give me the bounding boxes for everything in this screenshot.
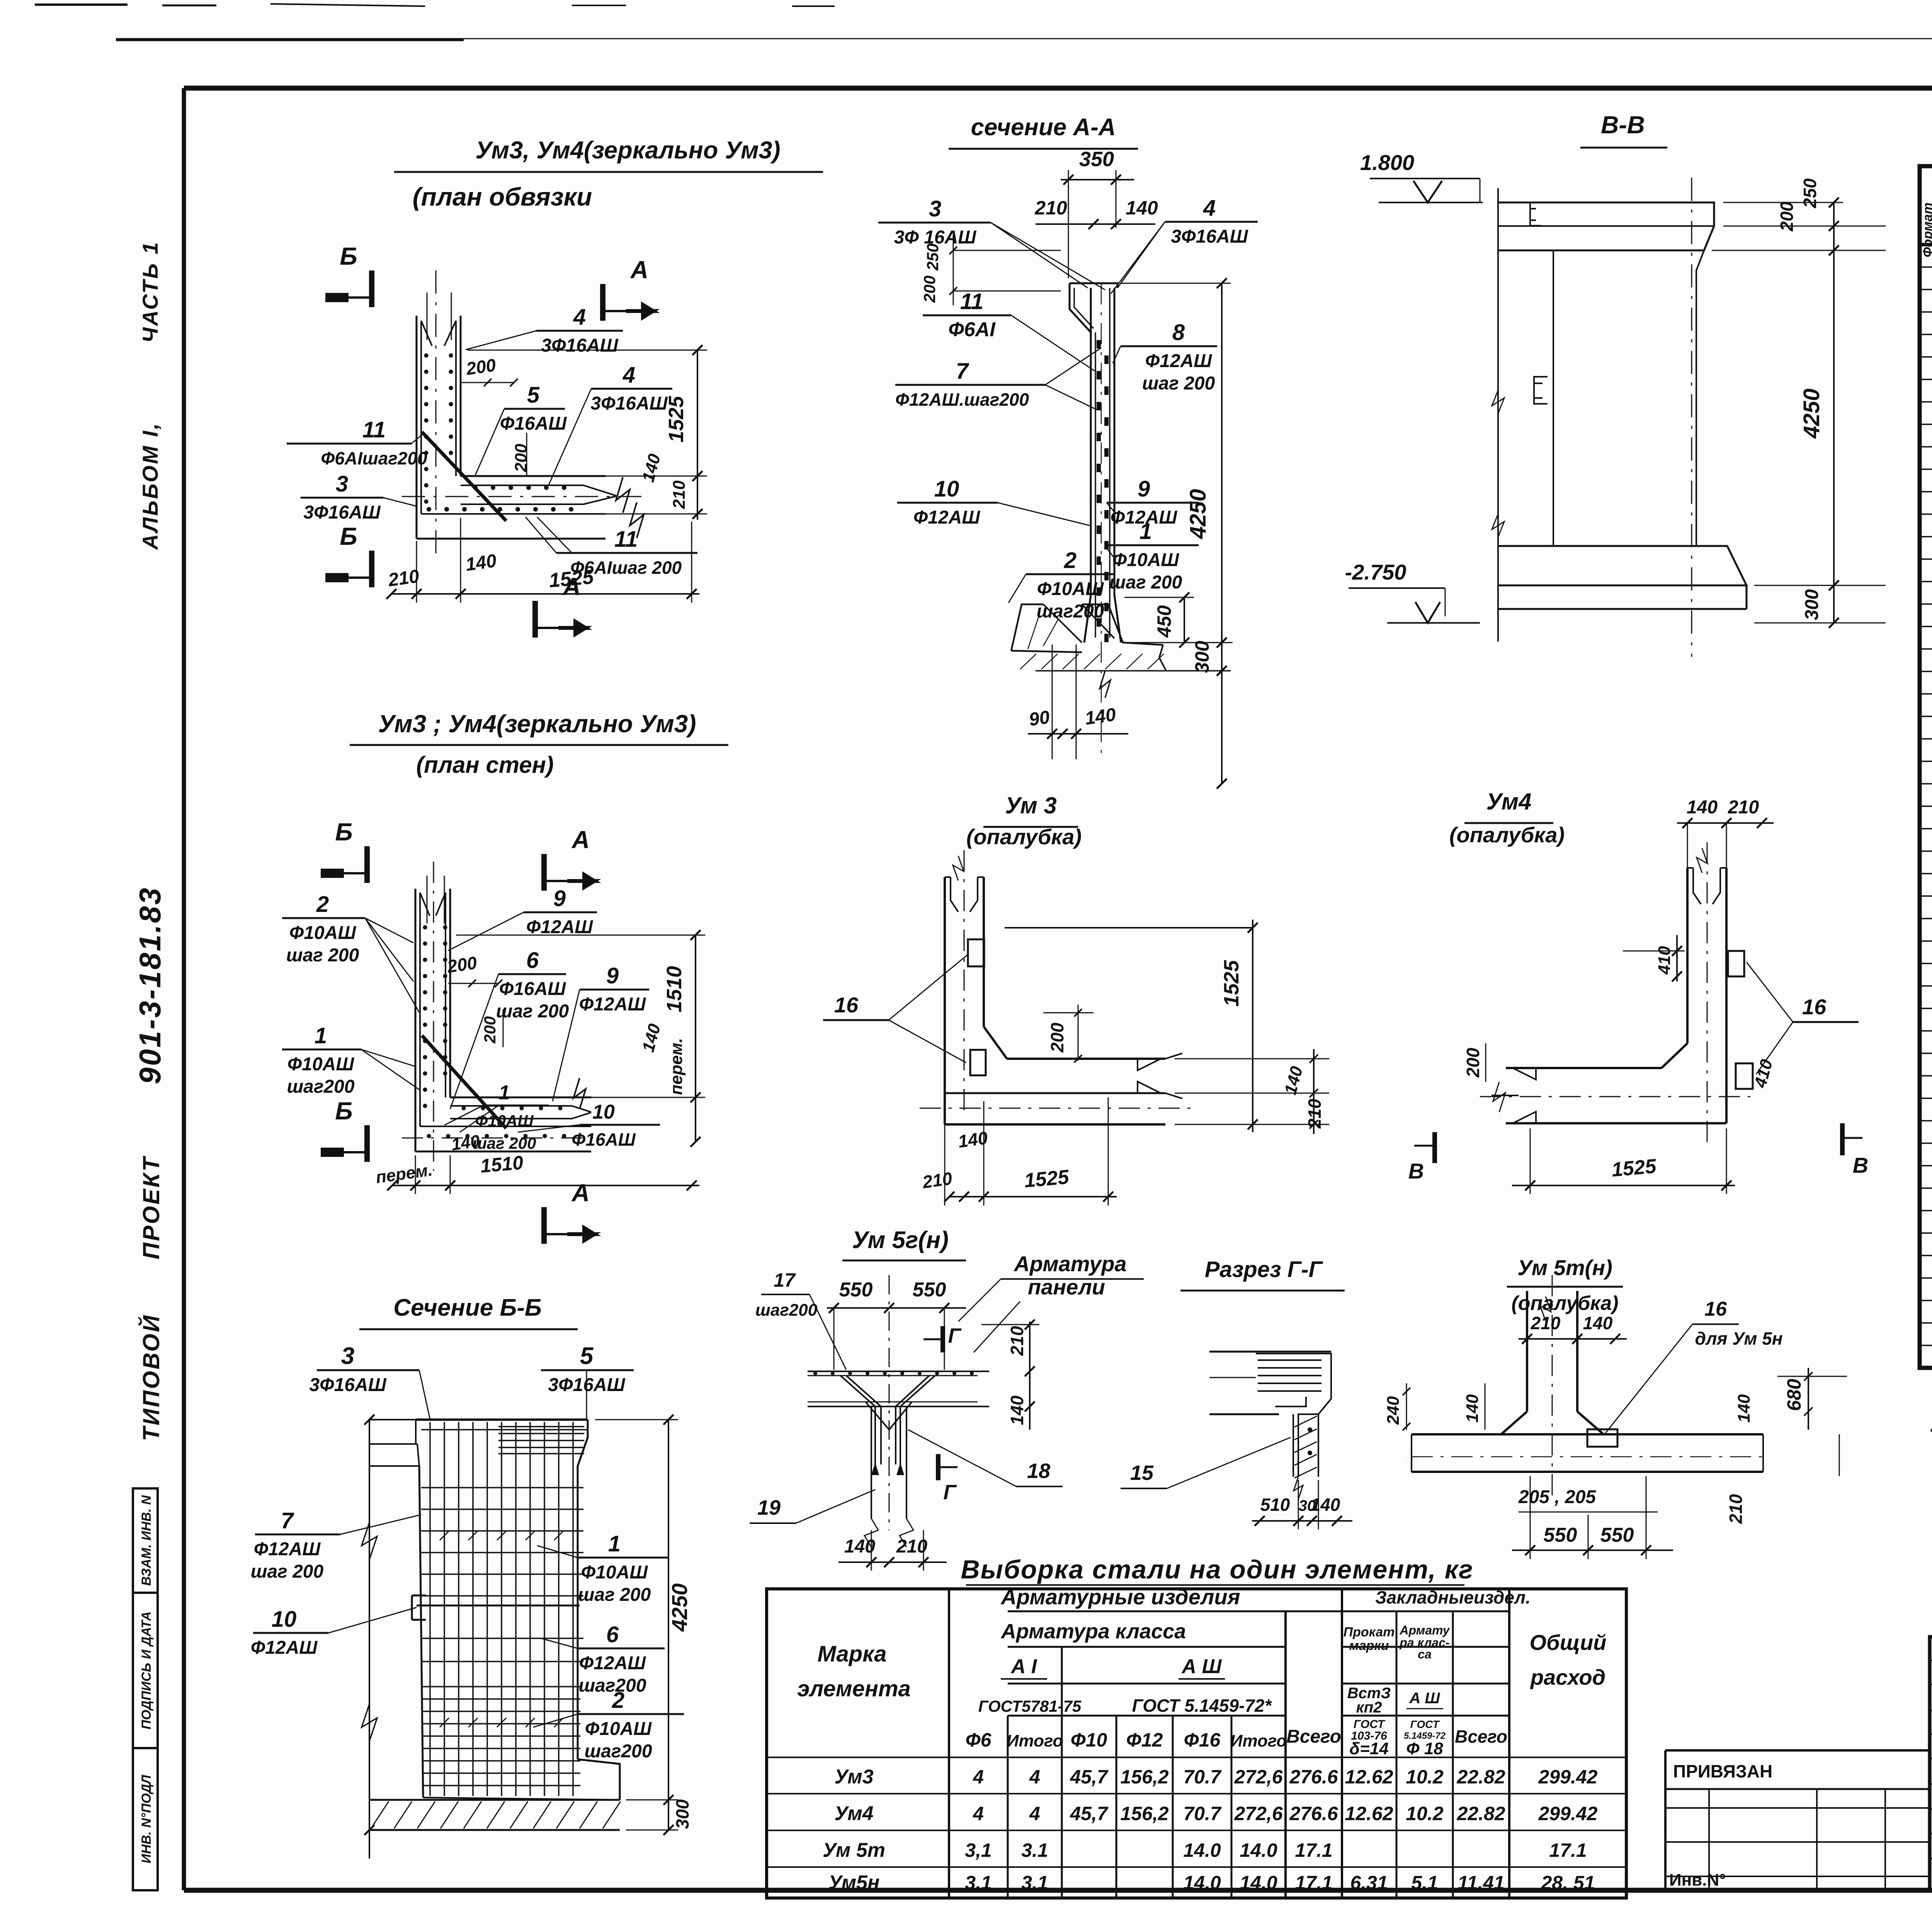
svg-text:5.1: 5.1: [1411, 1872, 1438, 1894]
svg-text:17: 17: [774, 1269, 796, 1291]
svg-text:ЧАСТЬ 1: ЧАСТЬ 1: [138, 241, 162, 343]
svg-text:250: 250: [923, 243, 942, 271]
svg-text:1525: 1525: [1023, 1166, 1070, 1192]
svg-text:шаг200: шаг200: [1036, 601, 1104, 622]
svg-text:Прокат: Прокат: [1344, 1625, 1395, 1639]
svg-text:1: 1: [315, 1023, 327, 1048]
svg-text:450: 450: [1153, 605, 1175, 638]
svg-text:5: 5: [527, 383, 540, 408]
svg-text:Г: Г: [943, 1481, 957, 1504]
svg-text:1.800: 1.800: [1360, 150, 1414, 175]
svg-text:276.6: 276.6: [1289, 1803, 1338, 1824]
svg-text:210: 210: [1726, 1494, 1746, 1524]
svg-text:Закладныеиздел.: Закладныеиздел.: [1375, 1587, 1531, 1607]
svg-text:А: А: [571, 826, 590, 854]
svg-text:элемента: элемента: [797, 1676, 911, 1701]
svg-text:90: 90: [1028, 707, 1051, 730]
svg-text:6: 6: [526, 948, 539, 973]
svg-text:11: 11: [614, 527, 638, 552]
svg-text:140: 140: [957, 1128, 989, 1151]
svg-text:901-3-181.83: 901-3-181.83: [133, 886, 167, 1084]
marker A bottom 2: [541, 1207, 547, 1244]
svg-text:210: 210: [1531, 1313, 1561, 1333]
svg-text:18: 18: [1027, 1459, 1050, 1483]
svg-text:210: 210: [1007, 1326, 1027, 1356]
svg-text:16: 16: [1704, 1298, 1727, 1320]
marker B bottom 2: [364, 1125, 370, 1162]
svg-text:14.0: 14.0: [1240, 1839, 1277, 1861]
svg-text:3: 3: [341, 1343, 354, 1369]
title block frame: [1930, 1637, 1932, 1890]
svg-text:300: 300: [1191, 641, 1213, 673]
border frame: [184, 86, 1932, 91]
svg-text:4250: 4250: [1185, 489, 1211, 539]
svg-text:ГОСТ: ГОСТ: [1354, 1718, 1386, 1731]
svg-text:140: 140: [1126, 197, 1158, 219]
svg-text:1: 1: [499, 1082, 510, 1104]
svg-text:А Ш: А Ш: [1409, 1690, 1440, 1707]
svg-text:200: 200: [920, 276, 939, 303]
svg-text:140: 140: [1735, 1394, 1753, 1423]
svg-text:140: 140: [1583, 1313, 1613, 1333]
um5g dims labels: [940, 1326, 945, 1352]
svg-text:4: 4: [973, 1766, 984, 1788]
svg-text:Б: Б: [340, 242, 357, 270]
svg-text:ГОСТ5781-75: ГОСТ5781-75: [978, 1697, 1082, 1715]
svg-text:16: 16: [834, 993, 859, 1017]
margin stamp boxes: [133, 1488, 158, 1890]
svg-text:Ф10: Ф10: [1071, 1729, 1107, 1751]
svg-text:11: 11: [960, 289, 983, 314]
svg-text:45,7: 45,7: [1070, 1803, 1109, 1824]
svg-text:140: 140: [1007, 1395, 1027, 1425]
svg-text:Б: Б: [335, 818, 352, 846]
svg-text:140: 140: [1687, 797, 1718, 818]
marker B bottom: [369, 551, 374, 587]
svg-text:17.1: 17.1: [1295, 1839, 1332, 1861]
svg-text:10: 10: [272, 1607, 297, 1632]
svg-text:ВЗАМ. ИНВ. N: ВЗАМ. ИНВ. N: [139, 1495, 154, 1586]
svg-text:Ум 5г(н): Ум 5г(н): [852, 1227, 949, 1253]
svg-text:3: 3: [929, 196, 941, 221]
svg-text:Ум5н: Ум5н: [828, 1872, 880, 1894]
svg-text:680: 680: [1783, 1379, 1805, 1411]
V-V dims: [1833, 202, 1835, 623]
razrez G-G shape: [1209, 1351, 1331, 1353]
marker B top 2: [364, 846, 370, 883]
svg-text:шаг 200: шаг 200: [286, 945, 359, 966]
svg-text:8: 8: [1172, 320, 1185, 345]
svg-text:4: 4: [1029, 1803, 1040, 1824]
svg-text:для Ум 5н: для Ум 5н: [1695, 1328, 1782, 1349]
svg-text:Ф12АШ: Ф12АШ: [254, 1539, 321, 1560]
svg-text:Ф10АШ: Ф10АШ: [581, 1562, 648, 1583]
svg-text:Ф6АI: Ф6АI: [948, 318, 996, 341]
svg-text:Сечение Б-Б: Сечение Б-Б: [393, 1294, 542, 1321]
sechenie B-B panel: [416, 1418, 588, 1421]
svg-text:Ф12АШ.шаг200: Ф12АШ.шаг200: [895, 389, 1029, 410]
svg-text:шаг 200: шаг 200: [251, 1561, 324, 1582]
svg-text:4: 4: [573, 304, 586, 330]
svg-text:17.1: 17.1: [1549, 1839, 1587, 1861]
svg-text:550: 550: [839, 1279, 873, 1301]
sechenie B-B dims: [369, 1420, 370, 1859]
svg-text:Инв.N°: Инв.N°: [1669, 1871, 1726, 1889]
svg-text:2: 2: [316, 892, 329, 917]
svg-text:(опалубка): (опалубка): [1449, 823, 1565, 847]
svg-text:ПРИВЯЗАН: ПРИВЯЗАН: [1673, 1761, 1772, 1781]
svg-text:1510: 1510: [663, 966, 686, 1012]
svg-text:550: 550: [1544, 1524, 1577, 1546]
svg-text:ГОСТ 5.1459-72*: ГОСТ 5.1459-72*: [1132, 1696, 1272, 1716]
svg-text:Ф10АШ: Ф10АШ: [475, 1112, 534, 1130]
svg-text:250: 250: [1800, 178, 1820, 208]
plan obvyazki walls: [427, 293, 428, 340]
svg-text:Ф6АIшаг200: Ф6АIшаг200: [321, 448, 427, 468]
svg-text:14.0: 14.0: [1240, 1872, 1277, 1894]
svg-text:4250: 4250: [1799, 388, 1824, 439]
marker A bottom: [532, 601, 538, 638]
svg-text:19: 19: [757, 1496, 781, 1519]
svg-text:140: 140: [1311, 1495, 1340, 1515]
svg-text:3Ф16АШ: 3Ф16АШ: [309, 1375, 386, 1395]
svg-text:Ум 3: Ум 3: [1005, 793, 1057, 818]
svg-text:140: 140: [464, 551, 498, 575]
svg-text:Армату: Армату: [1399, 1623, 1450, 1637]
svg-text:156,2: 156,2: [1120, 1803, 1168, 1824]
svg-text:Ф10АШ: Ф10АШ: [1112, 550, 1180, 570]
sechenie A-A wall: [1090, 288, 1092, 595]
svg-text:210: 210: [896, 1536, 927, 1557]
svg-text:1510: 1510: [480, 1151, 524, 1177]
svg-text:Б: Б: [335, 1097, 352, 1125]
svg-text:15: 15: [1130, 1461, 1154, 1485]
svg-text:ПРОЕКТ: ПРОЕКТ: [138, 1156, 164, 1259]
svg-text:Ум3, Ум4(зеркально Ум3): Ум3, Ум4(зеркально Ум3): [475, 137, 780, 164]
svg-text:210: 210: [1034, 197, 1067, 219]
svg-text:45,7: 45,7: [1070, 1766, 1109, 1788]
svg-text:А: А: [571, 1179, 590, 1207]
svg-text:10: 10: [592, 1101, 615, 1123]
svg-text:Б: Б: [340, 522, 357, 550]
svg-text:10.2: 10.2: [1406, 1766, 1444, 1788]
svg-text:140: 140: [1463, 1394, 1482, 1423]
svg-text:12.62: 12.62: [1345, 1803, 1393, 1824]
svg-text:(план обвязки: (план обвязки: [413, 182, 592, 211]
svg-text:Итого: Итого: [1230, 1731, 1287, 1750]
svg-text:140: 140: [844, 1536, 875, 1557]
svg-text:(план стен): (план стен): [416, 752, 554, 778]
svg-text:16: 16: [1802, 995, 1827, 1019]
svg-text:350: 350: [1079, 148, 1114, 171]
svg-text:В: В: [1853, 1153, 1868, 1177]
plan sten dims: [695, 935, 696, 1142]
svg-text:550: 550: [913, 1279, 946, 1301]
svg-text:510: 510: [1260, 1495, 1290, 1515]
plan obvyazki dims: [697, 350, 698, 520]
svg-text:Формат: Формат: [1920, 202, 1932, 257]
svg-text:шаг200: шаг200: [755, 1301, 818, 1320]
svg-text:200: 200: [1777, 201, 1797, 231]
svg-text:(опалубка): (опалубка): [966, 825, 1082, 849]
svg-text:Ф6: Ф6: [966, 1729, 992, 1751]
marker A top: [600, 284, 605, 321]
svg-text:3,1: 3,1: [965, 1872, 992, 1894]
plan sten walls: [427, 876, 428, 923]
svg-text:200: 200: [481, 1016, 499, 1044]
svg-text:Ф12: Ф12: [1126, 1729, 1163, 1751]
marker V left: [1432, 1132, 1437, 1163]
svg-text:ГОСТ: ГОСТ: [1410, 1718, 1440, 1730]
svg-text:14.0: 14.0: [1183, 1839, 1221, 1861]
svg-text:Ф12АШ: Ф12АШ: [913, 507, 981, 528]
svg-text:Ф 18: Ф 18: [1406, 1739, 1443, 1758]
svg-text:кп2: кп2: [1356, 1699, 1382, 1716]
svg-text:Ф10АШ: Ф10АШ: [289, 923, 357, 943]
svg-text:3Ф16АШ: 3Ф16АШ: [303, 502, 381, 523]
svg-text:4250: 4250: [667, 1583, 692, 1632]
svg-text:200: 200: [1047, 1022, 1067, 1053]
svg-text:ПОДПИСЬ И ДАТА: ПОДПИСЬ И ДАТА: [139, 1611, 154, 1730]
svg-text:240: 240: [1384, 1396, 1403, 1425]
svg-text:А Ш: А Ш: [1181, 1655, 1222, 1678]
svg-text:2: 2: [612, 1688, 624, 1713]
svg-text:Разрез Г-Г: Разрез Г-Г: [1205, 1257, 1323, 1282]
svg-text:шаг 200: шаг 200: [473, 1134, 536, 1152]
svg-text:9: 9: [553, 886, 566, 911]
svg-text:7: 7: [956, 359, 969, 384]
svg-text:А I: А I: [1010, 1655, 1037, 1678]
svg-text:300: 300: [1802, 589, 1822, 620]
svg-text:А: А: [630, 256, 648, 284]
svg-text:17.1: 17.1: [1295, 1872, 1332, 1894]
svg-text:Ф12АШ: Ф12АШ: [1145, 351, 1213, 371]
svg-text:В-В: В-В: [1601, 111, 1645, 139]
svg-text:Ф12АШ: Ф12АШ: [579, 1653, 646, 1673]
svg-text:3.1: 3.1: [1021, 1839, 1048, 1861]
svg-text:6.31: 6.31: [1350, 1872, 1388, 1894]
svg-text:В: В: [1408, 1159, 1424, 1183]
svg-text:1. Стержни поз. 5,6 приварить: 1. Стержни поз. 5,6 приварить к поз. 3,1…: [1930, 1409, 1932, 1437]
svg-text:δ=14: δ=14: [1349, 1739, 1389, 1758]
svg-text:марки: марки: [1349, 1638, 1389, 1653]
top thin line: [116, 38, 1932, 39]
svg-text:Арматура: Арматура: [1013, 1252, 1126, 1276]
svg-text:9: 9: [1138, 476, 1150, 502]
svg-text:140: 140: [1083, 704, 1117, 729]
svg-text:Ф10АШ: Ф10АШ: [585, 1719, 652, 1739]
svg-text:ТИПОВОЙ: ТИПОВОЙ: [138, 1314, 164, 1441]
svg-text:276.6: 276.6: [1289, 1766, 1338, 1788]
svg-text:Ф16: Ф16: [1184, 1729, 1221, 1751]
svg-text:перем.: перем.: [667, 1038, 686, 1095]
svg-text:272,6: 272,6: [1234, 1803, 1283, 1824]
svg-text:АЛЬБОМ I,: АЛЬБОМ I,: [138, 422, 162, 550]
svg-text:210: 210: [670, 480, 689, 509]
svg-text:9: 9: [606, 963, 619, 988]
svg-text:шаг 200: шаг 200: [578, 1585, 651, 1605]
svg-text:Ум3: Ум3: [834, 1766, 873, 1788]
svg-text:Марка: Марка: [817, 1641, 886, 1667]
V-V outline: [1497, 188, 1499, 641]
svg-text:Ф6АIшаг 200: Ф6АIшаг 200: [570, 558, 682, 578]
marker A top 2: [541, 854, 547, 891]
marker B top: [369, 270, 374, 307]
svg-text:Ф16АШ: Ф16АШ: [500, 413, 567, 434]
svg-text:156,2: 156,2: [1120, 1766, 1168, 1788]
svg-text:Ф10АШ: Ф10АШ: [287, 1054, 355, 1075]
svg-text:1: 1: [1139, 519, 1152, 544]
svg-text:Ф12АШ: Ф12АШ: [526, 917, 594, 937]
svg-text:22.82: 22.82: [1456, 1766, 1505, 1788]
sechenie A-A dims: [1221, 283, 1223, 784]
svg-text:5: 5: [580, 1343, 594, 1369]
svg-text:Всего: Всего: [1455, 1726, 1507, 1747]
svg-text:Ф16АШ: Ф16АШ: [571, 1129, 636, 1150]
svg-text:410: 410: [1655, 946, 1674, 975]
svg-text:Всего: Всего: [1286, 1726, 1341, 1747]
svg-text:70.7: 70.7: [1183, 1766, 1222, 1788]
svg-text:Ум 5т: Ум 5т: [823, 1839, 885, 1861]
svg-text:299.42: 299.42: [1538, 1766, 1598, 1788]
svg-text:Общий: Общий: [1529, 1630, 1606, 1655]
svg-text:Выборка стали на один элемент,: Выборка стали на один элемент, кг: [961, 1555, 1474, 1584]
svg-text:Итого: Итого: [1007, 1731, 1063, 1750]
svg-text:шаг 200: шаг 200: [1142, 373, 1215, 394]
svg-text:299.42: 299.42: [1538, 1803, 1598, 1824]
svg-text:2: 2: [1064, 548, 1077, 573]
svg-text:ИНВ. N°ПОДЛ: ИНВ. N°ПОДЛ: [139, 1775, 154, 1864]
svg-text:Ум3 ; Ум4(зеркально Ум3): Ум3 ; Ум4(зеркально Ум3): [378, 710, 696, 738]
svg-text:-2.750: -2.750: [1345, 560, 1406, 584]
svg-text:210: 210: [921, 1168, 954, 1192]
svg-text:Арматурные изделия: Арматурные изделия: [1000, 1585, 1240, 1609]
svg-text:шаг 200: шаг 200: [1109, 572, 1182, 593]
svg-text:22.82: 22.82: [1456, 1803, 1505, 1824]
svg-text:200: 200: [512, 444, 531, 473]
svg-text:272,6: 272,6: [1234, 1766, 1283, 1788]
svg-text:Ум 5т(н): Ум 5т(н): [1517, 1255, 1612, 1280]
svg-text:1: 1: [608, 1531, 621, 1556]
svg-text:11: 11: [362, 417, 386, 442]
svg-text:3: 3: [336, 471, 348, 497]
svg-text:200: 200: [446, 952, 478, 976]
svg-text:4: 4: [1029, 1766, 1040, 1788]
svg-text:4: 4: [973, 1803, 984, 1824]
svg-text:Ф10АШ: Ф10АШ: [1037, 579, 1104, 599]
svg-text:3Ф16АШ: 3Ф16АШ: [590, 393, 668, 414]
svg-text:Ф12АШ: Ф12АШ: [579, 994, 646, 1015]
svg-text:28. 51: 28. 51: [1541, 1872, 1595, 1894]
scan marks top: [35, 3, 128, 6]
svg-text:200: 200: [1463, 1048, 1483, 1078]
svg-text:сечение А-А: сечение А-А: [971, 114, 1116, 141]
svg-text:4: 4: [622, 362, 635, 388]
svg-text:3Ф16АШ: 3Ф16АШ: [1171, 226, 1248, 247]
svg-text:70.7: 70.7: [1183, 1803, 1222, 1824]
svg-text:7: 7: [281, 1508, 294, 1533]
svg-text:14.0: 14.0: [1183, 1872, 1221, 1894]
svg-text:210: 210: [1728, 797, 1759, 818]
svg-text:шаг200: шаг200: [584, 1741, 652, 1762]
svg-text:3.1: 3.1: [1021, 1872, 1048, 1894]
svg-text:Ум4: Ум4: [1486, 789, 1532, 815]
spec table grid: [1920, 166, 1932, 1368]
svg-text:1525: 1525: [1611, 1155, 1657, 1181]
svg-text:1525: 1525: [1220, 960, 1243, 1007]
stamp grid: [1665, 1749, 1930, 1752]
svg-text:расход: расход: [1530, 1665, 1605, 1689]
svg-text:Ф16АШ: Ф16АШ: [499, 979, 566, 999]
svg-text:11.41: 11.41: [1458, 1872, 1504, 1894]
svg-text:Ум4: Ум4: [834, 1802, 873, 1825]
svg-text:1525: 1525: [665, 396, 688, 442]
svg-text:шаг200: шаг200: [287, 1077, 354, 1097]
svg-text:3,1: 3,1: [965, 1839, 992, 1861]
svg-text:300: 300: [672, 1799, 692, 1829]
svg-text:200: 200: [464, 355, 497, 379]
svg-text:Г: Г: [948, 1324, 962, 1347]
svg-text:Арматура класса: Арматура класса: [1000, 1620, 1186, 1643]
svg-text:12.62: 12.62: [1345, 1766, 1393, 1788]
um3 opalubka outline: [945, 877, 984, 1124]
svg-text:са: са: [1418, 1647, 1432, 1661]
svg-text:4: 4: [1203, 196, 1216, 221]
svg-text:10.2: 10.2: [1406, 1803, 1444, 1824]
vyborka grid: [767, 1589, 1626, 1898]
marker V right: [1840, 1123, 1845, 1155]
svg-text:3Ф16АШ: 3Ф16АШ: [541, 335, 618, 356]
svg-text:10: 10: [934, 476, 959, 502]
svg-text:210: 210: [387, 566, 421, 591]
svg-text:550: 550: [1600, 1524, 1634, 1546]
svg-text:Ф12АШ: Ф12АШ: [251, 1638, 318, 1658]
svg-text:6: 6: [606, 1622, 619, 1647]
svg-text:шаг 200: шаг 200: [496, 1001, 569, 1022]
